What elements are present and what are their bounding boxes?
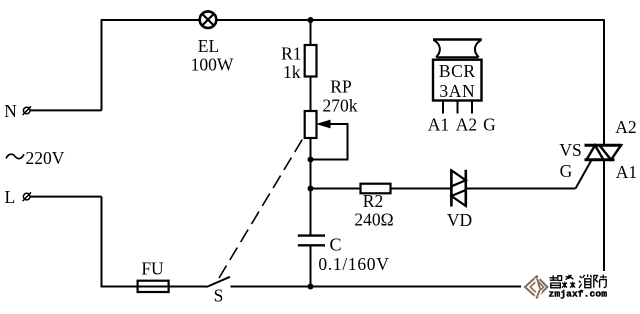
svg-text:270k: 270k (323, 96, 358, 116)
svg-text:zmjaxf.com: zmjaxf.com (549, 289, 608, 300)
svg-text:220V: 220V (26, 148, 65, 168)
switch S blade (207, 277, 231, 287)
svg-text:3AN: 3AN (439, 81, 475, 101)
node: capacitor / bottom bus junction (308, 284, 314, 290)
svg-text:A1: A1 (616, 162, 637, 182)
svg-text:1k: 1k (283, 62, 301, 82)
resistor R1 (305, 45, 317, 77)
wire: right vertical lower (triac A1 to bottom bus) (603, 160, 605, 288)
wire: RP wiper loop to lower terminal (311, 124, 348, 160)
wire: top bus (101, 19, 604, 21)
svg-text:A2: A2 (456, 114, 477, 134)
pin G of BCR package (471, 101, 473, 114)
wire: RP bottom through junctions to capacitor (310, 138, 312, 235)
label mains ~220V (6, 148, 65, 168)
svg-text:FU: FU (141, 259, 164, 279)
svg-text:R2: R2 (363, 191, 383, 211)
svg-text:VD: VD (447, 210, 472, 230)
wire: R2 branch from middle node (311, 188, 361, 190)
svg-text:0.1/160V: 0.1/160V (318, 254, 389, 274)
wire: diac VD to triac gate (466, 188, 576, 190)
svg-text:N: N (4, 101, 17, 121)
svg-text:VS: VS (559, 140, 581, 160)
wire: bottom bus right (switch to triac A1) (231, 286, 605, 288)
logo diamond mark (525, 276, 547, 297)
svg-text:A1: A1 (428, 114, 449, 134)
resistor R2 (361, 184, 391, 194)
svg-text:L: L (5, 187, 16, 207)
svg-text:G: G (483, 114, 496, 134)
svg-text:100W: 100W (191, 55, 234, 75)
node: R2 branch junction (308, 186, 314, 192)
wire: left vertical N to top bus (101, 20, 103, 110)
wire: gate diagonal to triac (576, 160, 592, 189)
triac VS (585, 145, 623, 160)
svg-text:S: S (214, 286, 224, 306)
wire: bottom bus left (through fuse to switch) (101, 286, 207, 288)
diac VD (451, 170, 465, 207)
node: wiper / RP lower terminal junction (308, 157, 314, 163)
logo white halo (521, 271, 612, 303)
wire: right vertical upper (to triac A2) (603, 19, 605, 146)
wire: middle vertical top bus to R1 (310, 19, 312, 45)
node: top bus / R1 junction (308, 17, 314, 23)
terminal N (23, 106, 31, 115)
svg-text:A2: A2 (615, 117, 636, 137)
logo text zhi miao xiao fang (hand-drawn glyphs) (550, 274, 607, 288)
potentiometer RP (305, 111, 330, 138)
wire: N lead (30, 109, 102, 111)
pin A2 of BCR package (457, 101, 459, 114)
pin A1 of BCR package (442, 101, 444, 114)
wire: L lead (30, 196, 102, 198)
wire: R1 to RP (310, 77, 312, 112)
fuse FU (138, 281, 169, 292)
thyristor package BCR 3AN outline (433, 40, 482, 101)
wire: capacitor to bottom bus (310, 246, 312, 287)
svg-text:EL: EL (198, 36, 219, 56)
svg-text:G: G (560, 161, 573, 181)
svg-text:240Ω: 240Ω (354, 210, 393, 230)
svg-text:RP: RP (330, 77, 352, 97)
wire: left vertical L to bottom bus (101, 197, 103, 287)
svg-text:C: C (330, 235, 342, 255)
wire: R2 to diac VD (391, 188, 453, 190)
lamp EL (200, 11, 217, 28)
mechanical link dashed line S to RP (219, 133, 307, 279)
terminal L (23, 192, 31, 201)
svg-text:BCR: BCR (439, 61, 476, 81)
svg-text:R1: R1 (281, 44, 301, 64)
capacitor C (298, 236, 325, 246)
